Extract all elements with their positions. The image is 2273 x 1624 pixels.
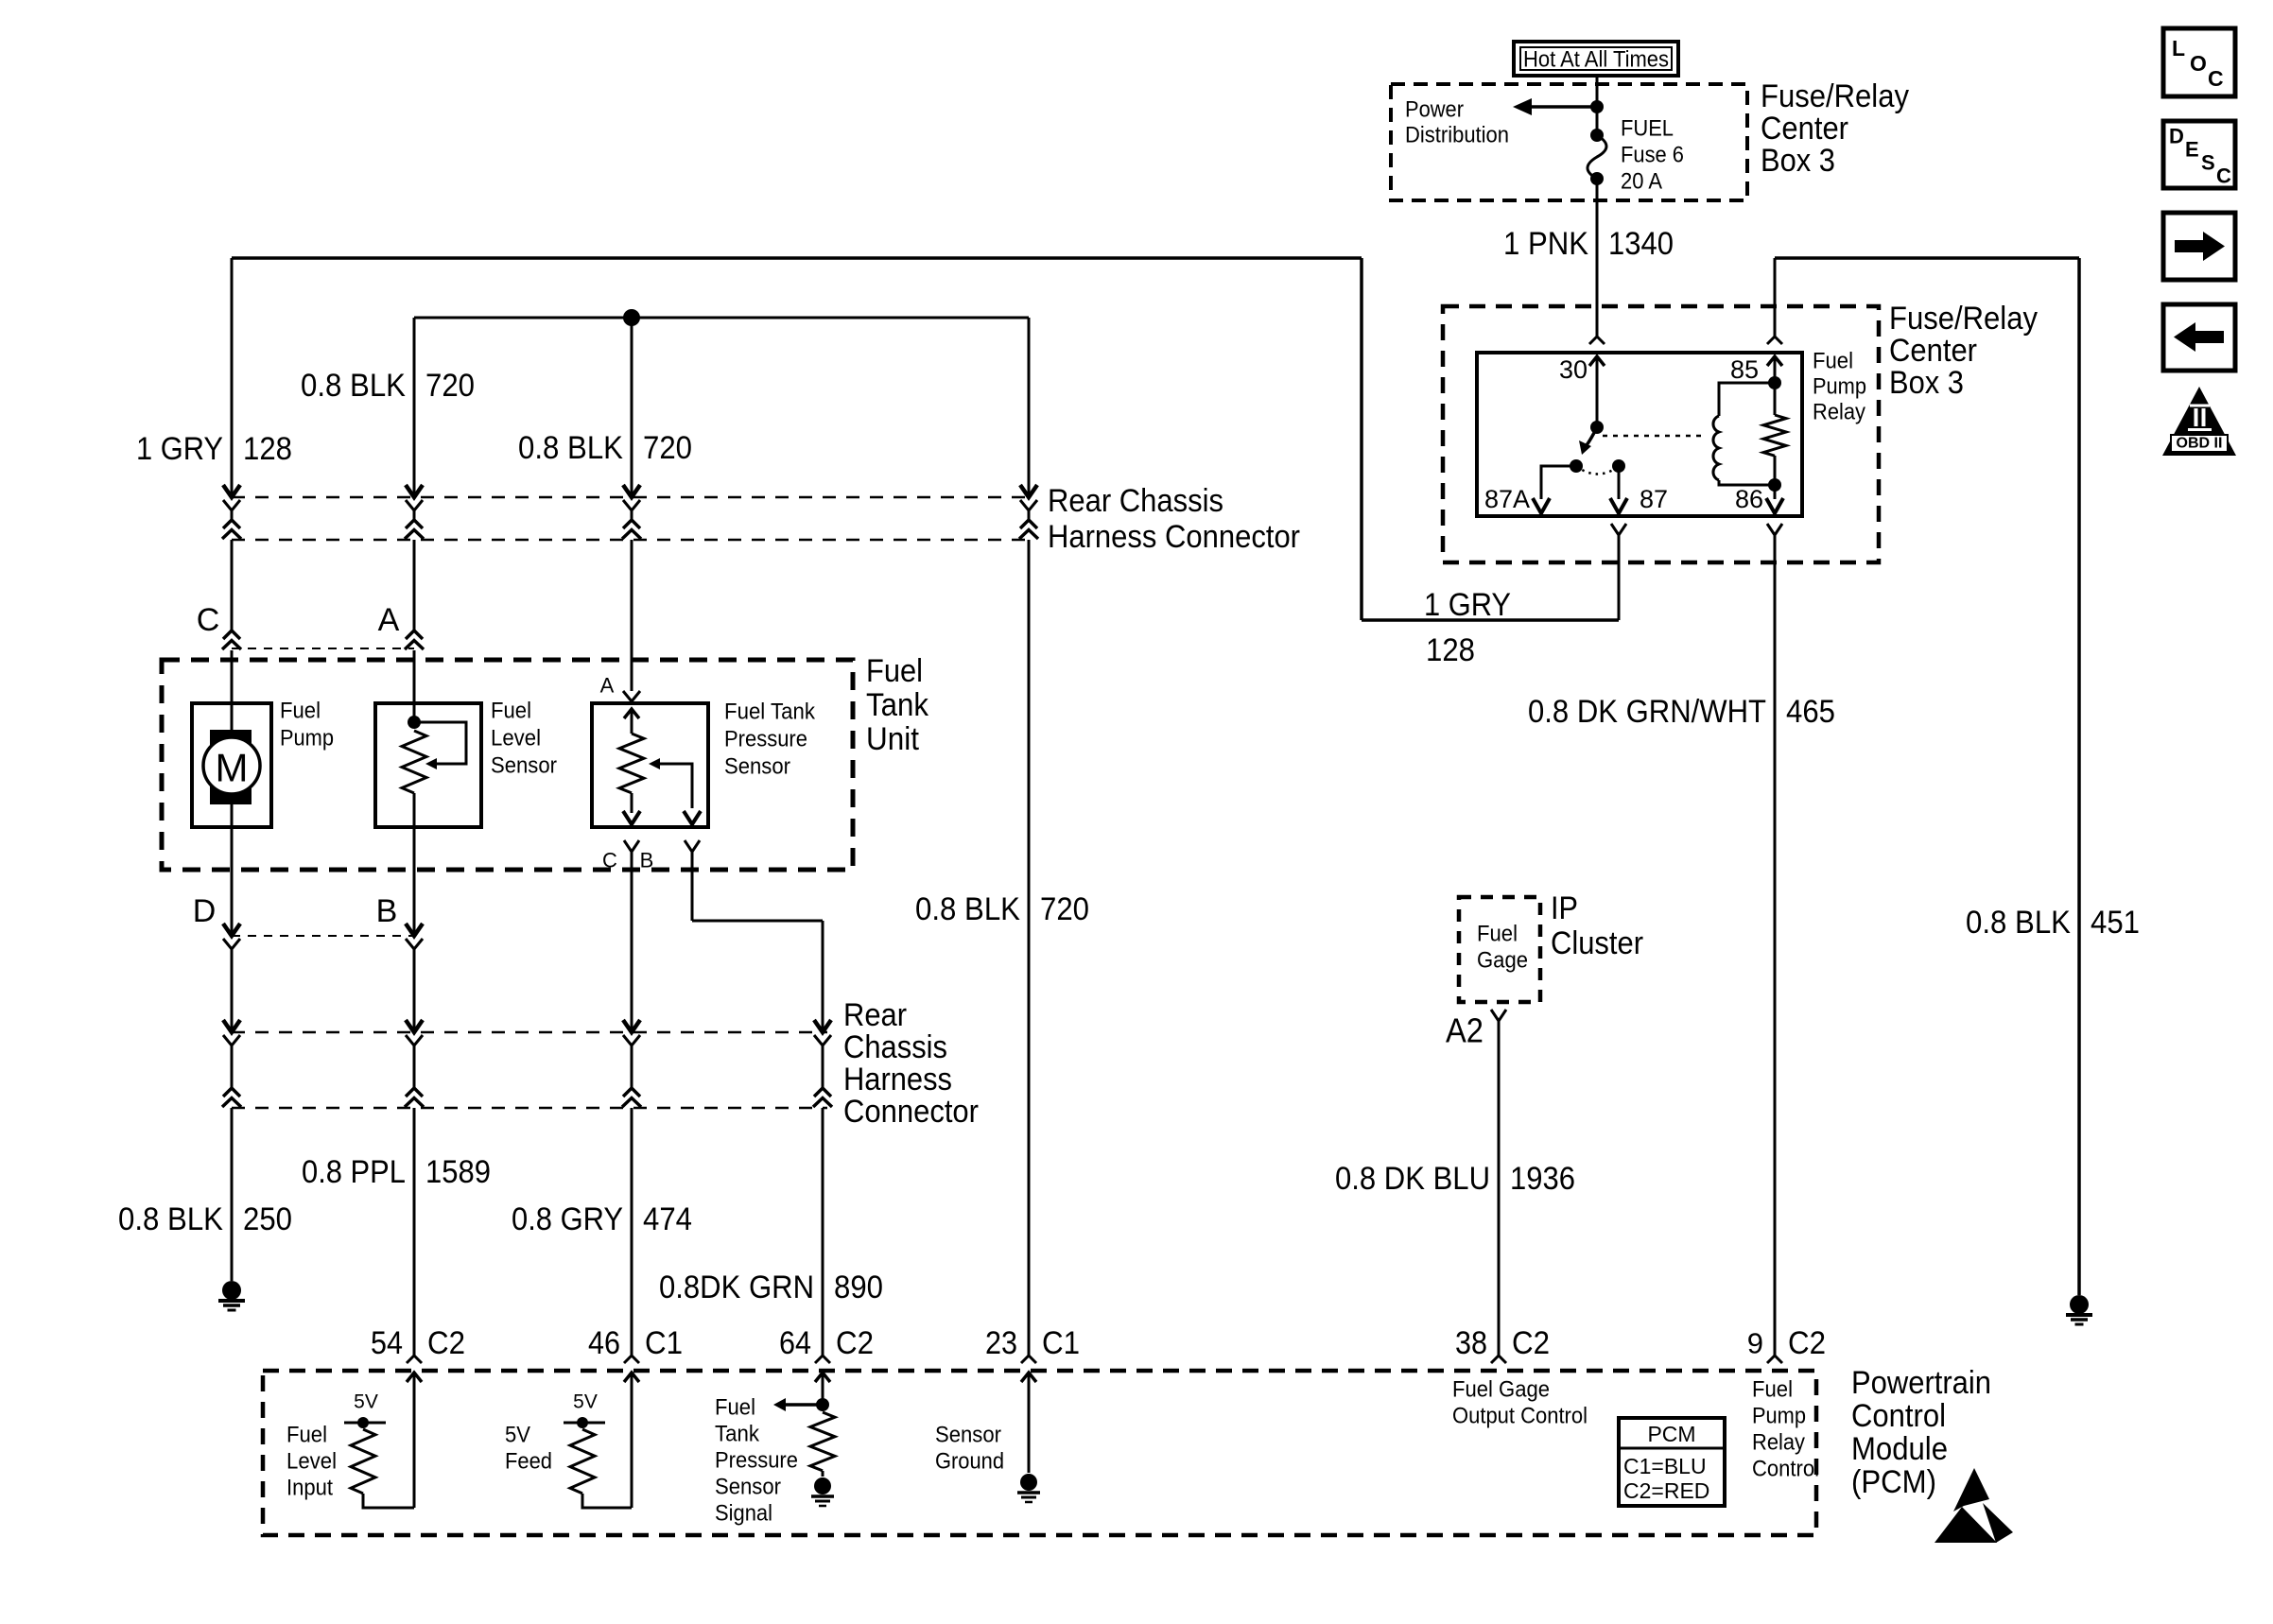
svg-text:Harness Connector: Harness Connector (1048, 519, 1300, 555)
svg-text:Input: Input (286, 1476, 333, 1501)
svg-text:0.8DK GRN: 0.8DK GRN (659, 1270, 814, 1305)
svg-text:Fuel Gage: Fuel Gage (1452, 1377, 1550, 1403)
svg-text:Ground: Ground (935, 1449, 1004, 1475)
svg-text:C1: C1 (1042, 1325, 1080, 1361)
svg-text:C2=RED: C2=RED (1623, 1478, 1709, 1503)
svg-text:720: 720 (425, 368, 475, 404)
svg-text:FUEL: FUEL (1621, 116, 1674, 142)
svg-text:Harness: Harness (843, 1062, 952, 1097)
svg-text:Center: Center (1889, 333, 1977, 369)
svg-text:Fuel: Fuel (280, 699, 321, 724)
svg-text:23: 23 (985, 1325, 1017, 1361)
svg-text:E: E (2185, 138, 2199, 162)
svg-text:Pump: Pump (1752, 1404, 1806, 1429)
svg-text:Pressure: Pressure (715, 1448, 798, 1474)
svg-text:Pressure: Pressure (724, 727, 807, 752)
svg-text:C: C (602, 849, 617, 872)
svg-text:720: 720 (1040, 891, 1089, 927)
svg-text:Level: Level (286, 1449, 337, 1475)
svg-text:Rear: Rear (843, 997, 907, 1033)
svg-text:C2: C2 (836, 1325, 874, 1361)
svg-text:54: 54 (371, 1325, 403, 1361)
svg-text:0.8 BLK: 0.8 BLK (118, 1201, 223, 1237)
svg-text:0.8 GRY: 0.8 GRY (512, 1201, 623, 1237)
svg-text:474: 474 (643, 1201, 692, 1237)
svg-text:Level: Level (491, 726, 541, 752)
svg-text:Cluster: Cluster (1551, 925, 1643, 961)
svg-text:1936: 1936 (1510, 1161, 1575, 1197)
svg-text:Center: Center (1761, 111, 1848, 147)
svg-text:Control: Control (1752, 1457, 1819, 1482)
svg-text:L: L (2172, 36, 2185, 60)
svg-text:C1=BLU: C1=BLU (1623, 1454, 1707, 1478)
svg-text:128: 128 (243, 431, 292, 467)
svg-text:451: 451 (2091, 905, 2140, 941)
svg-text:C: C (2208, 66, 2224, 91)
svg-text:Fuse/Relay: Fuse/Relay (1761, 78, 1909, 114)
svg-text:Distribution: Distribution (1405, 123, 1509, 148)
svg-text:Fuel Tank: Fuel Tank (724, 700, 816, 725)
svg-text:Output Control: Output Control (1452, 1404, 1588, 1429)
svg-text:0.8 BLK: 0.8 BLK (915, 891, 1020, 927)
svg-text:1 GRY: 1 GRY (1424, 587, 1511, 623)
svg-text:OBD II: OBD II (2177, 436, 2223, 452)
svg-text:S: S (2201, 151, 2215, 175)
svg-text:1 PNK: 1 PNK (1503, 226, 1588, 262)
svg-text:Unit: Unit (866, 721, 920, 757)
svg-text:1 GRY: 1 GRY (136, 431, 223, 467)
svg-text:30: 30 (1559, 355, 1588, 384)
svg-text:5V: 5V (505, 1423, 530, 1448)
svg-text:46: 46 (588, 1325, 620, 1361)
svg-text:PCM: PCM (1647, 1422, 1695, 1446)
svg-text:Rear Chassis: Rear Chassis (1048, 483, 1223, 519)
svg-text:Fuel: Fuel (715, 1395, 755, 1421)
svg-text:B: B (640, 849, 654, 872)
svg-text:M: M (216, 746, 249, 790)
svg-text:Fuel: Fuel (866, 653, 923, 689)
svg-text:Sensor: Sensor (491, 753, 557, 779)
svg-text:A2: A2 (1446, 1011, 1484, 1050)
svg-text:9: 9 (1747, 1327, 1763, 1360)
svg-text:0.8 BLK: 0.8 BLK (301, 368, 406, 404)
svg-text:20 A: 20 A (1621, 169, 1662, 195)
svg-text:Fuel: Fuel (1752, 1377, 1793, 1403)
svg-text:250: 250 (243, 1201, 292, 1237)
svg-text:Sensor: Sensor (724, 754, 790, 780)
svg-text:720: 720 (643, 430, 692, 466)
svg-text:Fuse/Relay: Fuse/Relay (1889, 301, 2038, 337)
svg-text:Signal: Signal (715, 1501, 772, 1527)
svg-text:Connector: Connector (843, 1094, 979, 1130)
svg-text:Feed: Feed (505, 1449, 552, 1475)
svg-text:C: C (2216, 164, 2231, 188)
svg-text:Control: Control (1851, 1398, 1946, 1434)
svg-text:1589: 1589 (425, 1154, 491, 1190)
svg-text:87: 87 (1640, 485, 1668, 513)
svg-text:Powertrain: Powertrain (1851, 1365, 1991, 1401)
svg-text:0.8 BLK: 0.8 BLK (518, 430, 623, 466)
svg-text:0.8 DK GRN/WHT: 0.8 DK GRN/WHT (1528, 694, 1766, 730)
svg-text:Pump: Pump (280, 726, 334, 752)
svg-text:Fuel: Fuel (1813, 349, 1853, 374)
svg-text:Gage: Gage (1477, 948, 1528, 974)
svg-text:D: D (193, 893, 217, 929)
svg-text:Relay: Relay (1752, 1430, 1805, 1456)
svg-text:A: A (600, 674, 615, 698)
svg-text:5V: 5V (354, 1391, 378, 1413)
svg-text:890: 890 (834, 1270, 883, 1305)
svg-text:85: 85 (1730, 355, 1759, 384)
svg-text:64: 64 (779, 1325, 811, 1361)
svg-text:Box 3: Box 3 (1761, 143, 1835, 179)
svg-text:Sensor: Sensor (715, 1475, 781, 1500)
svg-text:C2: C2 (1512, 1325, 1550, 1361)
svg-text:465: 465 (1786, 694, 1835, 730)
svg-text:Fuse 6: Fuse 6 (1621, 143, 1684, 168)
svg-text:(PCM): (PCM) (1851, 1464, 1936, 1500)
svg-text:5V: 5V (573, 1391, 598, 1413)
svg-text:D: D (2169, 125, 2184, 148)
svg-text:Module: Module (1851, 1431, 1948, 1467)
svg-text:C2: C2 (1788, 1325, 1826, 1361)
svg-text:IP: IP (1551, 890, 1578, 926)
svg-text:O: O (2190, 51, 2207, 76)
svg-text:86: 86 (1735, 485, 1763, 513)
svg-text:38: 38 (1455, 1325, 1487, 1361)
svg-text:C2: C2 (427, 1325, 465, 1361)
svg-text:Relay: Relay (1813, 400, 1865, 425)
svg-text:Tank: Tank (715, 1422, 760, 1447)
svg-text:C: C (197, 602, 220, 638)
svg-text:B: B (376, 893, 398, 929)
svg-text:0.8 BLK: 0.8 BLK (1966, 905, 2071, 941)
svg-text:C1: C1 (645, 1325, 683, 1361)
svg-text:1340: 1340 (1608, 226, 1674, 262)
svg-text:A: A (378, 602, 400, 638)
svg-text:Hot At All Times: Hot At All Times (1523, 47, 1669, 73)
svg-text:Fuel: Fuel (1477, 922, 1518, 947)
svg-text:Pump: Pump (1813, 374, 1866, 400)
svg-text:Fuel: Fuel (286, 1423, 327, 1448)
svg-text:Box 3: Box 3 (1889, 365, 1964, 401)
svg-text:Sensor: Sensor (935, 1423, 1001, 1448)
svg-text:Power: Power (1405, 97, 1464, 123)
svg-text:Tank: Tank (866, 687, 929, 723)
svg-text:0.8 DK BLU: 0.8 DK BLU (1335, 1161, 1490, 1197)
svg-text:128: 128 (1426, 632, 1475, 668)
svg-text:0.8 PPL: 0.8 PPL (302, 1154, 406, 1190)
svg-text:Fuel: Fuel (491, 699, 531, 724)
svg-text:Chassis: Chassis (843, 1029, 947, 1065)
svg-text:87A: 87A (1484, 485, 1530, 513)
